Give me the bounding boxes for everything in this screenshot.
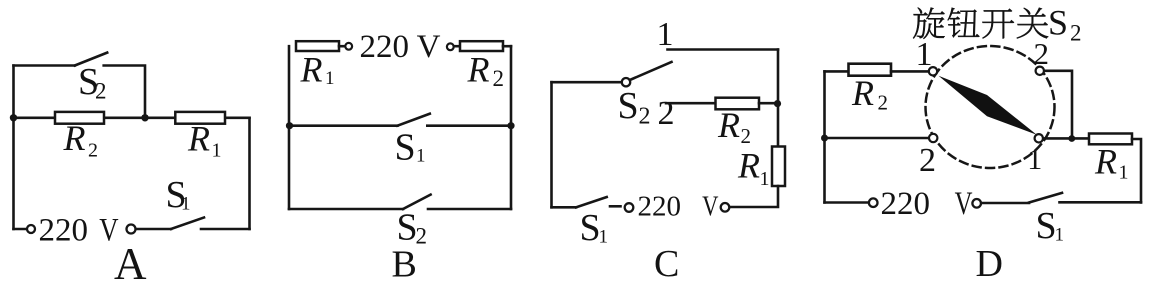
svg-text:S: S <box>618 85 639 127</box>
switch S2 blade (C) <box>630 62 672 80</box>
rotary switch dashed circle (D) <box>926 46 1055 168</box>
svg-text:S: S <box>397 206 418 248</box>
resistor R1 (B) <box>296 41 339 51</box>
wire B terminal to R2 <box>454 45 460 48</box>
wire A right rail <box>248 118 251 229</box>
svg-text:1: 1 <box>181 194 191 215</box>
wire C position-1 <box>668 48 779 51</box>
svg-text:2: 2 <box>741 124 752 148</box>
svg-text:R: R <box>717 105 740 145</box>
svg-text:1: 1 <box>760 168 770 190</box>
svg-text:V: V <box>702 190 719 222</box>
svg-text:R: R <box>467 49 490 89</box>
node junction A-left <box>10 114 17 121</box>
svg-text:1: 1 <box>212 140 222 162</box>
svg-text:1: 1 <box>1027 143 1042 176</box>
wire A bottom-right <box>201 228 250 231</box>
terminal 1 top-left (D) <box>929 67 937 75</box>
resistor R2 (A) <box>55 112 104 124</box>
switch S1 blade (C) <box>576 197 607 207</box>
wire B top R2 to rail <box>503 45 511 48</box>
wire C position-2 right <box>759 102 778 105</box>
node junction D-right <box>1068 135 1075 142</box>
svg-text:V: V <box>955 186 973 222</box>
wire B top R1 to terminal <box>339 45 345 48</box>
svg-text:1: 1 <box>657 16 674 53</box>
svg-text:2: 2 <box>658 95 675 132</box>
wire B right rail <box>510 46 513 209</box>
svg-text:2: 2 <box>1034 36 1050 71</box>
svg-text:R: R <box>187 119 210 159</box>
node junction D-left <box>821 135 828 142</box>
terminal circle A-right <box>127 225 136 234</box>
wire D R2 to terminal <box>891 70 929 73</box>
node junction B-left <box>286 122 293 129</box>
wire D top-left <box>825 70 849 73</box>
terminal circle B-right <box>447 43 454 50</box>
svg-text:220: 220 <box>881 186 931 222</box>
wire D bottom-left branch <box>825 137 929 140</box>
wire D left rail <box>823 71 826 202</box>
rotary blade (D) <box>939 76 1037 135</box>
wire D R1 to right rail <box>1132 139 1141 203</box>
svg-text:R: R <box>1094 142 1117 182</box>
svg-text:1: 1 <box>1119 162 1129 184</box>
terminal circle C-right <box>721 203 730 212</box>
wire B middle left <box>289 124 397 127</box>
svg-text:2: 2 <box>639 104 651 130</box>
node junction A-mid <box>141 114 148 121</box>
node junction B-right <box>507 122 514 129</box>
node junction C <box>774 100 781 107</box>
wire D bottom-left segment <box>825 201 870 204</box>
wire C right rail upper <box>777 50 780 147</box>
svg-text:D: D <box>976 243 1003 281</box>
svg-text:2: 2 <box>416 224 428 249</box>
wire A top-right segment <box>104 66 145 118</box>
svg-text:2: 2 <box>493 66 505 91</box>
terminal circle B-left <box>345 43 352 50</box>
terminal circle D-right <box>972 199 981 208</box>
resistor R2 (B) <box>460 41 503 51</box>
wire C dash before terminal <box>610 205 621 208</box>
svg-text:2: 2 <box>919 142 936 179</box>
svg-text:A: A <box>114 239 147 281</box>
svg-text:R: R <box>300 50 323 90</box>
resistor R2 (C) <box>716 98 760 110</box>
svg-text:220 V: 220 V <box>360 29 441 65</box>
wire A bottom-left <box>14 228 28 231</box>
switch S1 blade (B) <box>397 114 429 126</box>
svg-text:B: B <box>392 244 417 281</box>
terminal 2 top-right (D) <box>1036 67 1044 75</box>
wire A top-left segment <box>14 64 75 67</box>
svg-text:1: 1 <box>325 68 335 89</box>
wire D terminal to switch <box>981 202 1029 205</box>
rotary switch title (D): 旋钮开关 <box>913 8 1048 39</box>
svg-text:1: 1 <box>1055 225 1065 246</box>
wire A left rail <box>12 66 15 230</box>
resistor R1 (C) vertical <box>772 147 785 187</box>
svg-text:2: 2 <box>1070 21 1082 46</box>
wire C top-left <box>552 81 622 84</box>
wire D bottom-right <box>1060 201 1142 204</box>
wire D BR terminal to R1 <box>1043 137 1089 140</box>
wire B bottom left <box>289 208 403 211</box>
wire C bottom-left <box>552 206 577 209</box>
svg-text:1: 1 <box>916 36 933 73</box>
svg-text:R: R <box>737 146 760 186</box>
svg-text:C: C <box>654 243 679 281</box>
svg-text:220: 220 <box>638 190 682 222</box>
svg-text:2: 2 <box>95 79 107 104</box>
switch S2 blade (A) <box>75 53 107 66</box>
switch S1 blade (A) <box>171 218 204 230</box>
wire C left rail <box>550 82 553 207</box>
wire B bottom right <box>428 208 511 211</box>
wire D top-right branch <box>1044 71 1072 139</box>
terminal circle A-left <box>27 225 35 233</box>
terminal 1 bottom-right (D) <box>1035 134 1043 142</box>
resistor R2 (D) <box>849 64 892 76</box>
wire A bottom to switch <box>136 228 171 231</box>
svg-text:1: 1 <box>416 146 426 167</box>
svg-text:2: 2 <box>88 140 98 162</box>
svg-text:S: S <box>395 127 416 169</box>
switch S2 blade (B) <box>403 195 431 209</box>
switch S2 pivot circle (C) <box>622 78 630 86</box>
svg-text:R: R <box>63 118 86 158</box>
resistor R1 (A) <box>175 112 225 124</box>
terminal circle D-left <box>869 198 878 207</box>
wire C right rail lower <box>730 186 778 207</box>
wire B middle right <box>427 124 511 127</box>
svg-text:R: R <box>851 73 874 113</box>
svg-text:S: S <box>1048 3 1068 43</box>
wire A middle <box>14 117 250 120</box>
wire B left rail <box>288 46 291 209</box>
terminal 2 bottom-left (D) <box>929 134 937 142</box>
terminal circle C-left <box>625 203 634 212</box>
svg-text:S: S <box>1036 205 1057 247</box>
svg-text:2: 2 <box>878 91 889 115</box>
svg-text:S: S <box>580 207 601 249</box>
wire C position-2 left <box>666 102 716 105</box>
resistor R1 (D) <box>1089 134 1132 145</box>
svg-text:1: 1 <box>599 227 609 248</box>
switch S1 blade (D) <box>1029 193 1062 203</box>
svg-text:220: 220 <box>39 213 89 249</box>
